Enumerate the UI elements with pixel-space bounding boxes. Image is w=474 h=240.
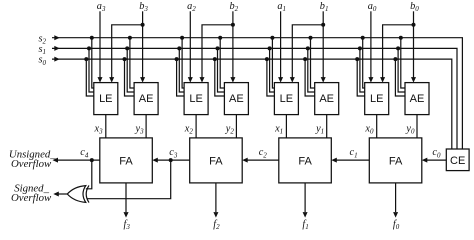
block AE bit0 (405, 83, 429, 115)
svg-text:Overflow: Overflow (11, 158, 52, 170)
wire x0 LE output to FA (376, 115, 378, 138)
block FA bit0 (369, 138, 422, 183)
svg-text:AE: AE (139, 93, 154, 105)
wire b2 branch to LE top, junction on b2 (200, 23, 235, 83)
svg-text:f0: f0 (393, 219, 400, 231)
wire s2 tap into LE bit1, junction (270, 36, 274, 88)
svg-text:c1: c1 (350, 147, 358, 159)
wire c0 from CE into FA bit0 (422, 158, 447, 163)
wire x2 LE output to FA (195, 115, 197, 138)
svg-text:x0: x0 (364, 124, 374, 136)
block AE bit3 (134, 83, 158, 115)
label Unsigned_ Overflow (9, 149, 56, 170)
wire s1 tap into LE bit1, junction (268, 46, 275, 92)
svg-text:x2: x2 (184, 124, 194, 136)
wire s1 tap into LE bit2, junction (177, 46, 184, 92)
label Signed_ Overflow (11, 183, 52, 204)
xor gate for signed overflow (points left) (67, 185, 89, 202)
wire c1 carry, arrow into FA bit1 (331, 158, 369, 163)
svg-text:b1: b1 (320, 1, 329, 13)
wire s0 tap into AE bit3, junction (123, 57, 135, 96)
svg-text:s0: s0 (39, 55, 47, 67)
wire b0 into AE top (411, 11, 416, 82)
wire s2 tap into AE bit1, junction (309, 36, 315, 88)
svg-text:FA: FA (209, 155, 223, 167)
wire s0 tap into LE bit2, junction (175, 57, 185, 96)
wire y1 AE output to FA (326, 115, 328, 138)
wire b0 branch to LE top, junction on b0 (380, 23, 415, 83)
wire b1 into AE top (321, 11, 326, 82)
wire s2 tap into AE bit2, junction (218, 36, 224, 88)
wire b3 into AE top (140, 11, 145, 82)
block FA bit2 (190, 138, 243, 183)
block FA bit3 (100, 138, 153, 183)
wire x1 LE output to FA (285, 115, 287, 138)
svg-text:AE: AE (319, 93, 334, 105)
block AE bit2 (224, 83, 248, 115)
svg-text:c2: c2 (259, 147, 268, 159)
svg-text:f3: f3 (124, 219, 131, 231)
wire s2 tap into LE bit3, junction (90, 36, 94, 88)
junction c3 node, drop and run to XOR bottom input (87, 158, 173, 199)
svg-text:Overflow: Overflow (11, 192, 52, 204)
wire s1 tap into AE bit0, junction (396, 46, 405, 92)
wire s2 tap into AE bit3, junction (128, 36, 134, 88)
wire f1 output arrow (303, 183, 308, 218)
wire y0 AE output to FA (416, 115, 418, 138)
wire c4 carry-out to Unsigned Overflow arrow (53, 158, 100, 163)
block AE bit1 (315, 83, 339, 115)
wire b3 branch to LE top, junction on b3 (109, 23, 144, 83)
wire s1 tap into AE bit3, junction (125, 46, 134, 92)
svg-text:FA: FA (119, 155, 133, 167)
svg-text:AE: AE (229, 93, 244, 105)
wire s0 tap into AE bit0, junction (393, 57, 405, 96)
wire a1 into LE top (278, 11, 283, 82)
wire c2 carry, arrow into FA bit2 (242, 158, 279, 163)
wire c3 carry, arrow into FA bit3 (152, 158, 189, 163)
wire s0 tap into AE bit2, junction (213, 57, 225, 96)
svg-text:a1: a1 (277, 1, 286, 13)
svg-text:y1: y1 (315, 124, 324, 136)
junction c4 node, drop to XOR top input (86, 158, 94, 189)
svg-text:y3: y3 (135, 124, 145, 136)
wire f3 output arrow (124, 183, 129, 218)
wire a2 into LE top (188, 11, 193, 82)
wire s2 tap into LE bit2, junction (180, 36, 184, 88)
wire a0 into LE top (368, 11, 373, 82)
wire s0 tap into AE bit1, junction (303, 57, 315, 96)
block LE bit2 (184, 83, 208, 115)
block LE bit3 (94, 83, 118, 115)
svg-text:b0: b0 (410, 1, 419, 13)
wire s0 horizontal bus with input arrow, bend down to CE (52, 57, 452, 149)
svg-text:c4: c4 (80, 147, 89, 159)
svg-text:f2: f2 (213, 219, 220, 231)
svg-text:LE: LE (280, 93, 293, 105)
wire b1 branch to LE top, junction on b1 (290, 23, 325, 83)
wire s1 tap into LE bit3, junction (87, 46, 94, 92)
wire s1 tap into AE bit1, junction (306, 46, 315, 92)
svg-text:LE: LE (189, 93, 202, 105)
svg-text:LE: LE (99, 93, 112, 105)
wire s2 horizontal bus with input arrow, bend down to CE (52, 35, 462, 149)
svg-text:a3: a3 (97, 1, 106, 13)
svg-text:y2: y2 (225, 124, 235, 136)
svg-text:x1: x1 (274, 124, 283, 136)
svg-text:a2: a2 (187, 1, 196, 13)
svg-text:a0: a0 (368, 1, 377, 13)
wire f0 output arrow (393, 183, 398, 218)
wire s1 tap into AE bit2, junction (216, 46, 225, 92)
block FA bit1 (279, 138, 332, 183)
wire s2 tap into LE bit0, junction (361, 36, 365, 88)
svg-text:c0: c0 (432, 147, 441, 159)
svg-text:f1: f1 (302, 219, 308, 231)
block CE carry extender (446, 149, 469, 171)
wire y3 AE output to FA (145, 115, 147, 138)
svg-text:AE: AE (410, 93, 425, 105)
wire x3 LE output to FA (105, 115, 107, 138)
svg-text:LE: LE (370, 93, 383, 105)
wire s2 tap into AE bit0, junction (399, 36, 405, 88)
svg-text:CE: CE (450, 155, 465, 167)
block LE bit1 (274, 83, 298, 115)
svg-text:x3: x3 (94, 124, 104, 136)
wire s0 tap into LE bit0, junction (355, 57, 365, 96)
svg-text:FA: FA (298, 155, 312, 167)
wire s0 tap into LE bit3, junction (84, 57, 94, 96)
block LE bit0 (365, 83, 389, 115)
svg-text:c3: c3 (169, 147, 178, 159)
wire b2 into AE top (230, 11, 235, 82)
wire a3 into LE top (98, 11, 103, 82)
svg-text:b2: b2 (230, 1, 239, 13)
svg-text:FA: FA (389, 155, 403, 167)
wire f2 output arrow (213, 183, 218, 218)
wire s1 tap into LE bit0, junction (358, 46, 365, 92)
wire s0 tap into LE bit1, junction (265, 57, 275, 96)
wire y2 AE output to FA (235, 115, 237, 138)
wire XOR output to Signed Overflow arrow (53, 192, 67, 197)
svg-text:y0: y0 (405, 124, 415, 136)
svg-text:b3: b3 (139, 1, 148, 13)
wire s1 horizontal bus with input arrow, bend down to CE (52, 46, 457, 149)
